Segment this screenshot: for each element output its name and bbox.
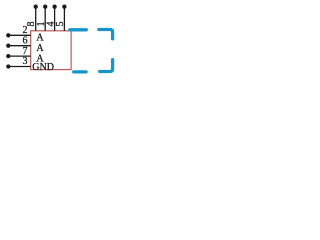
svg-text:6: 6 bbox=[23, 35, 28, 46]
dashed highlight box: top-right corner dash bbox=[99, 30, 113, 39]
pin 8 terminal dot bbox=[34, 5, 38, 9]
pin 8 wire bbox=[35, 7, 37, 31]
dashed highlight box: top-left dash bbox=[70, 28, 87, 31]
pin 2 wire bbox=[8, 34, 30, 36]
pin 2 terminal dot bbox=[6, 33, 10, 37]
svg-text:GND: GND bbox=[32, 62, 54, 73]
pin 4 wire bbox=[54, 7, 56, 31]
pin 5 terminal dot bbox=[62, 5, 66, 9]
dashed highlight box: bottom-right corner dash bbox=[100, 60, 113, 72]
pin 4 number label bbox=[46, 22, 57, 27]
pin 1 wire bbox=[44, 7, 46, 31]
pin 1 terminal dot bbox=[43, 5, 47, 9]
pin 7 wire bbox=[8, 55, 30, 57]
svg-text:5: 5 bbox=[55, 22, 66, 27]
dashed highlight box: bottom-left dash bbox=[74, 70, 86, 73]
pin 5 wire bbox=[63, 7, 65, 31]
pin 1 number label bbox=[36, 22, 47, 27]
pin 5 number label bbox=[55, 22, 66, 27]
pin 3 terminal dot bbox=[6, 64, 10, 68]
svg-text:A: A bbox=[36, 32, 44, 43]
pin 3 wire bbox=[8, 66, 30, 68]
pin 7 terminal dot bbox=[6, 54, 10, 58]
svg-text:3: 3 bbox=[23, 56, 28, 67]
svg-text:A: A bbox=[36, 43, 44, 54]
pin 8 number label bbox=[26, 22, 37, 27]
pin 6 terminal dot bbox=[6, 44, 10, 48]
pin 6 wire bbox=[8, 45, 30, 47]
pin 4 terminal dot bbox=[52, 5, 56, 9]
IC package body U1 (DIP outline) bbox=[31, 31, 71, 70]
